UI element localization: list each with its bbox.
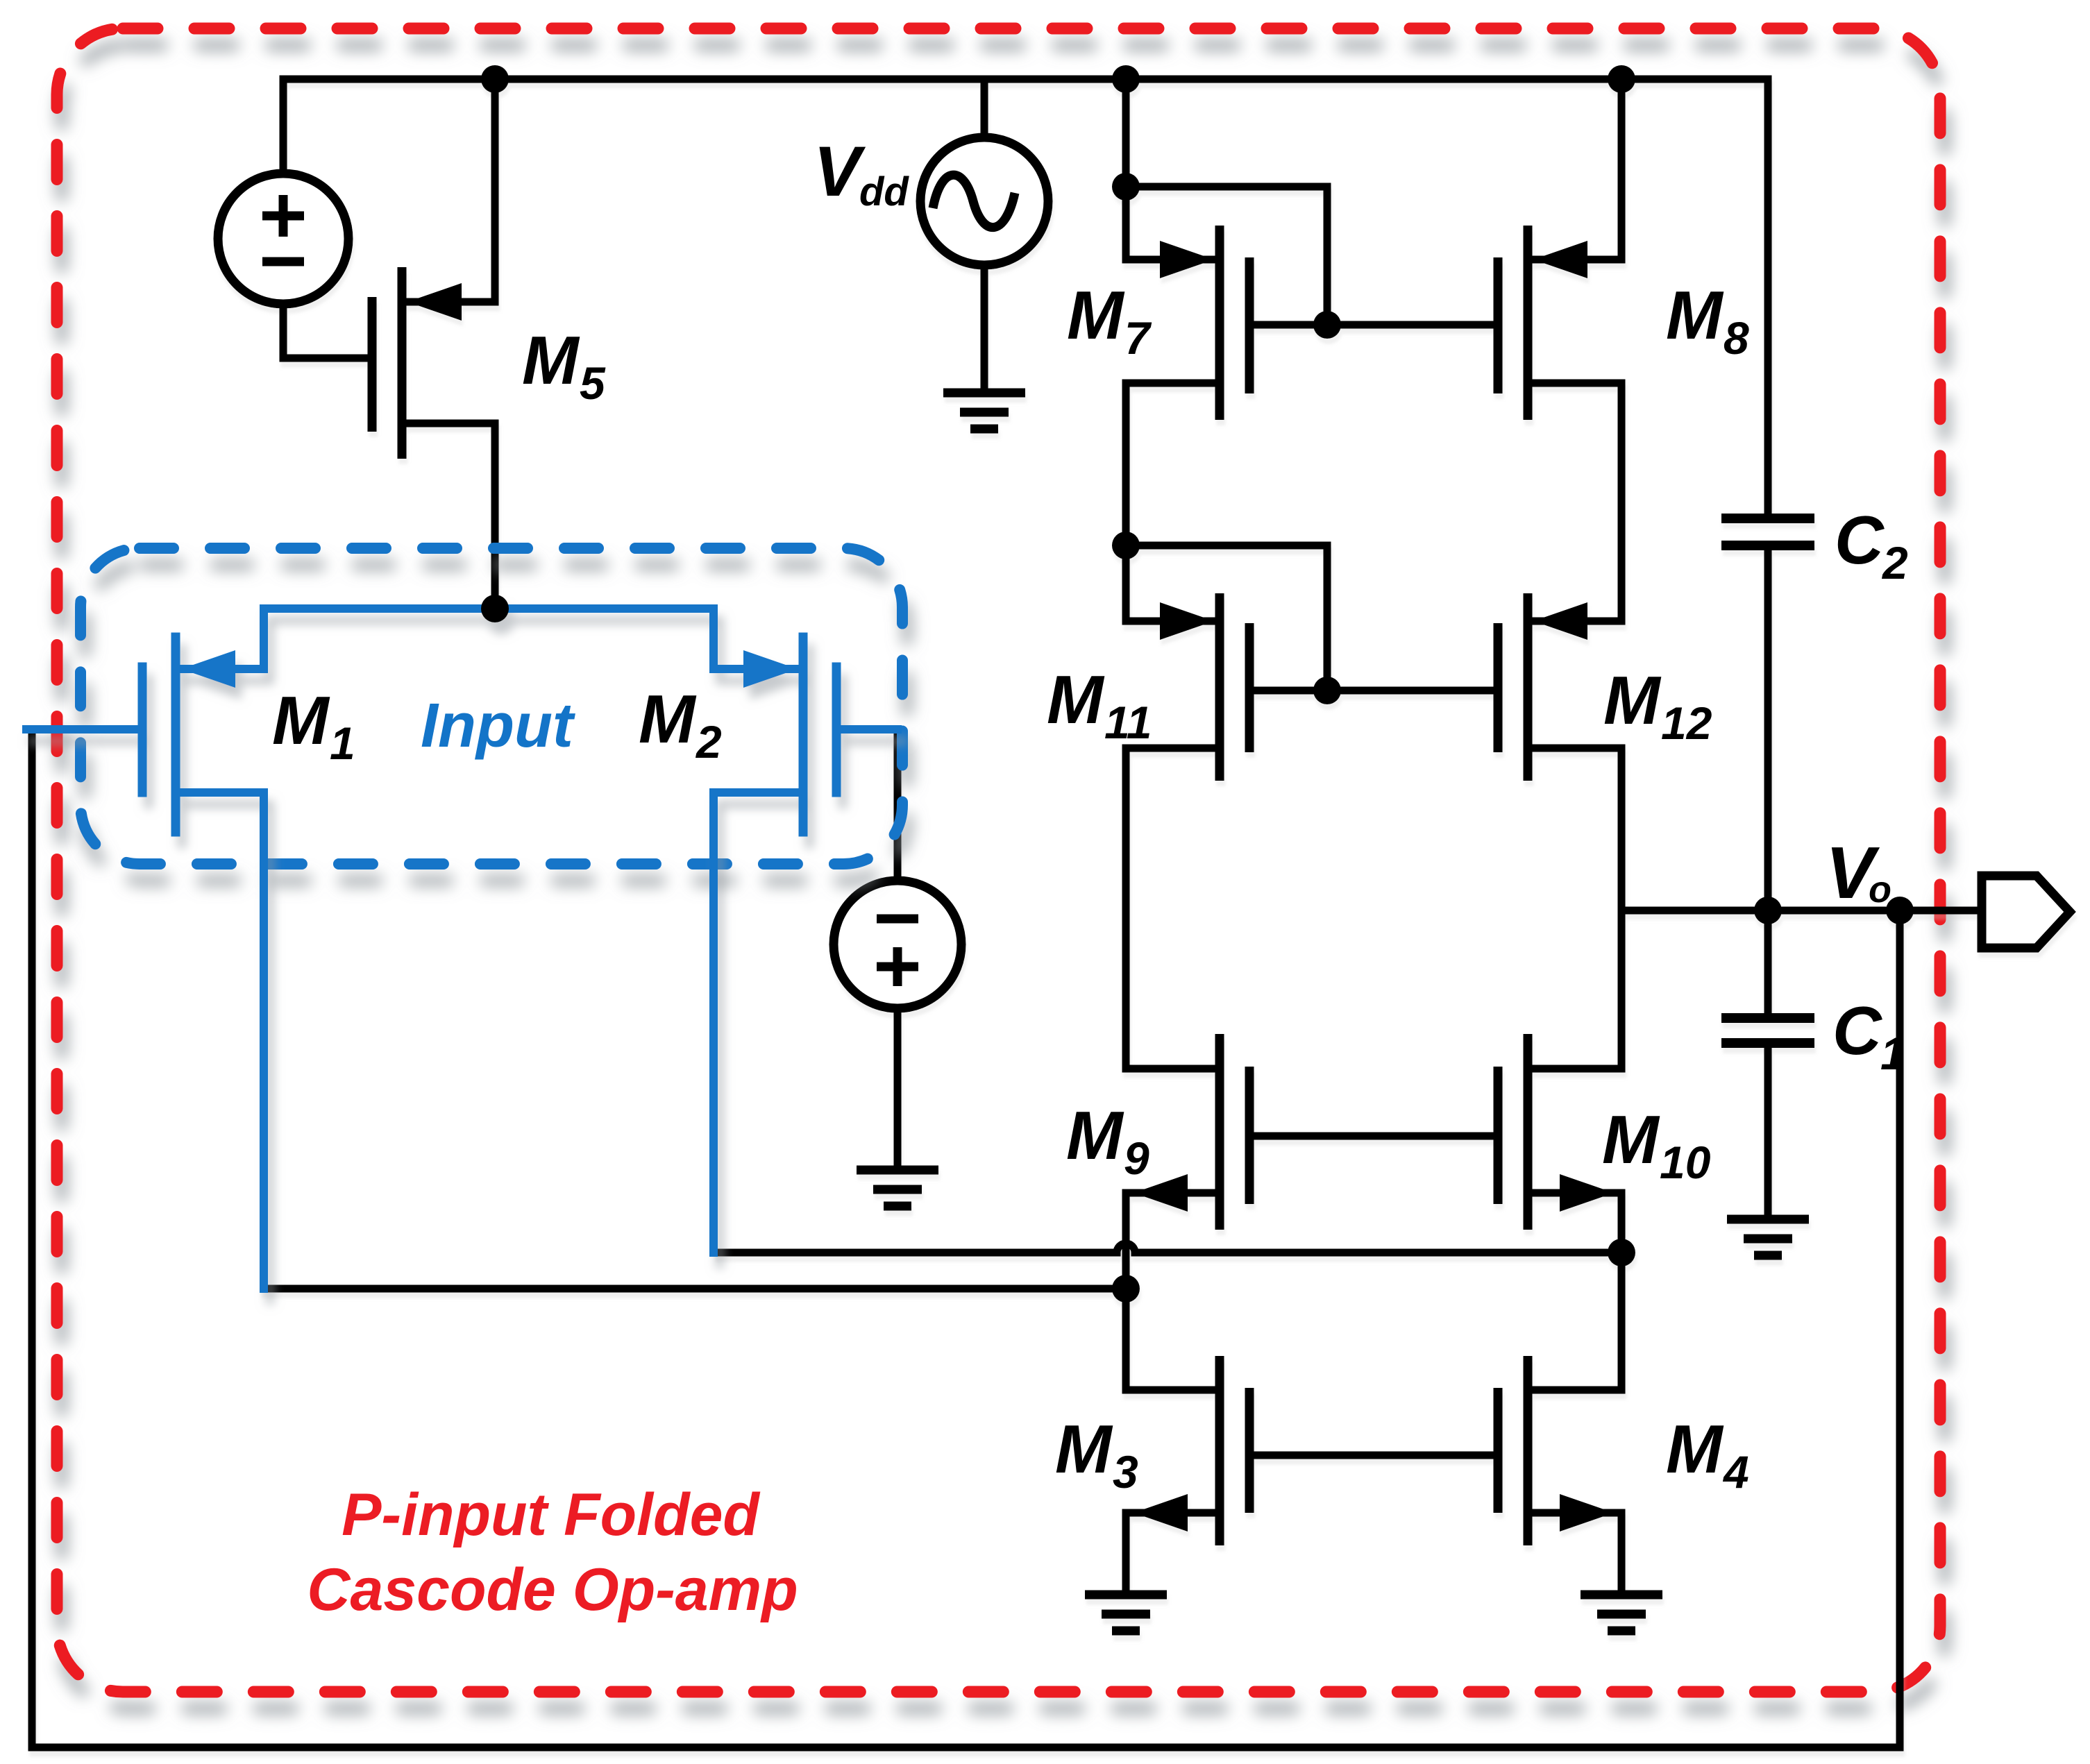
- output port arrow: [1982, 876, 2070, 948]
- wire M5 source to top rail: [491, 79, 499, 302]
- ground below Vb: [857, 1170, 938, 1206]
- wire output node Vo: [1621, 907, 1982, 915]
- wire M12 drain to M10 drain: [1618, 748, 1626, 1069]
- wire M8 drain to M12 source: [1618, 383, 1626, 621]
- capacitor C1: [1721, 1018, 1814, 1043]
- transistor M10: [1498, 1034, 1621, 1230]
- svg-text:2: 2: [695, 716, 722, 767]
- wire M10 source to node B: [1618, 1193, 1626, 1390]
- wire M3 drain lead: [1126, 1386, 1220, 1394]
- wire Vdd source to top rail: [981, 79, 988, 139]
- transistor M11: [1126, 593, 1498, 781]
- ground below M4: [1581, 1595, 1662, 1631]
- wire M8 source to top rail: [1618, 79, 1626, 260]
- node M11 gate-feed tap: [1112, 532, 1140, 559]
- svg-text:10: 10: [1660, 1137, 1711, 1188]
- wire M2 gate to Vb source: [894, 729, 902, 881]
- svg-text:12: 12: [1661, 697, 1712, 749]
- voltage source V bias (+/-): [218, 173, 348, 304]
- transistor M1 (blue): [26, 609, 264, 832]
- transistor M9: [1126, 1034, 1498, 1230]
- source Vdd (AC symbol): [920, 137, 1048, 265]
- node junction top rail / M7 bus: [1112, 65, 1140, 93]
- node B: M2 drain / M10 source / M4 drain: [1608, 1239, 1635, 1266]
- wire Vb source to ground: [894, 1008, 902, 1170]
- wire M7 drain to M11 source: [1122, 383, 1130, 621]
- wire M2 drain to node B (hop over left bus): [714, 1244, 1621, 1253]
- wire M4 source to ground: [1618, 1513, 1626, 1595]
- wire Vdd source to ground: [981, 265, 988, 393]
- svg-text:1: 1: [1880, 1028, 1906, 1079]
- wire bias source to M5 gate: [283, 304, 372, 358]
- wire C2 bottom to Vo node and C1 top: [1764, 550, 1772, 1013]
- svg-text:M: M: [1055, 1411, 1113, 1487]
- ground below C1: [1727, 1219, 1809, 1255]
- node M11/M12 gate junction: [1313, 677, 1341, 704]
- svg-text:4: 4: [1722, 1446, 1749, 1498]
- svg-text:M: M: [1602, 1101, 1660, 1178]
- svg-text:Cascode Op-amp: Cascode Op-amp: [307, 1557, 798, 1623]
- svg-text:M: M: [272, 682, 330, 758]
- svg-text:M: M: [1066, 1097, 1124, 1173]
- svg-text:M: M: [1666, 277, 1724, 353]
- node junction top rail / M8 bus: [1608, 65, 1635, 93]
- svg-text:M: M: [1067, 277, 1125, 353]
- wire M4 drain lead: [1528, 1386, 1621, 1394]
- node M7/M8 gate junction: [1313, 311, 1341, 339]
- wire C1 bottom to ground: [1764, 1048, 1772, 1219]
- node input pair / M5 drain: [481, 595, 509, 622]
- transistor M3: [1126, 1356, 1498, 1545]
- transistor M2 (blue): [714, 609, 897, 832]
- svg-text:8: 8: [1724, 312, 1749, 364]
- svg-text:Input: Input: [421, 691, 576, 761]
- node M7 gate-feed tap: [1112, 173, 1140, 201]
- ground below Vdd: [943, 393, 1025, 429]
- wire M1 drain to node A: [264, 1285, 1126, 1293]
- transistor M12: [1498, 593, 1621, 781]
- transistor M5: [372, 267, 495, 459]
- svg-text:3: 3: [1113, 1446, 1138, 1498]
- wire M11 drain to M9 drain: [1122, 748, 1130, 1069]
- wire M3 source to ground: [1122, 1513, 1130, 1595]
- svg-text:P-input Folded: P-input Folded: [342, 1482, 760, 1548]
- wire M1 drain down (blue): [260, 792, 268, 1289]
- wire M2 drain down (blue): [709, 792, 718, 1253]
- svg-text:9: 9: [1124, 1133, 1149, 1184]
- svg-text:M: M: [1603, 662, 1662, 738]
- transistor M8: [1498, 226, 1621, 420]
- svg-text:C: C: [1835, 502, 1885, 578]
- input pair box (blue dashed): [81, 548, 902, 864]
- svg-text:M: M: [1666, 1411, 1724, 1487]
- transistor M7: [1126, 226, 1498, 420]
- transistor M4: [1498, 1356, 1621, 1545]
- wire M11/M12 gate feed: [1126, 545, 1327, 690]
- svg-text:dd: dd: [859, 169, 909, 214]
- wire bias source top lead: [280, 79, 287, 175]
- wire M8-left bus top: [1122, 79, 1130, 260]
- voltage source Vb (-/+): [834, 881, 961, 1008]
- svg-text:M: M: [1047, 661, 1105, 738]
- node Vo / feedback junction: [1886, 897, 1914, 924]
- svg-text:o: o: [1869, 869, 1891, 910]
- capacitor C2: [1721, 518, 1814, 545]
- node A: M1 drain / M9 source / M3 drain: [1112, 1275, 1140, 1303]
- node Vo / C1-C2 junction: [1754, 897, 1782, 924]
- svg-text:2: 2: [1881, 537, 1908, 588]
- svg-text:7: 7: [1124, 312, 1152, 364]
- svg-text:M: M: [522, 322, 580, 398]
- wire M7/M8 gate feed: [1126, 187, 1327, 325]
- svg-text:C: C: [1832, 992, 1882, 1069]
- wire input pair common source (blue): [264, 604, 714, 613]
- wire top supply rail: [283, 79, 1768, 514]
- ground below M3: [1085, 1595, 1167, 1631]
- wire feedback loop M1 gate - bottom - Vo: [32, 729, 1900, 1747]
- svg-text:11: 11: [1104, 697, 1152, 748]
- svg-text:M: M: [639, 681, 697, 757]
- wire M9 source down to node A: [1122, 1193, 1130, 1390]
- svg-text:V: V: [814, 132, 866, 211]
- svg-text:1: 1: [330, 718, 355, 769]
- node junction top rail / M5 source: [481, 65, 509, 93]
- svg-text:5: 5: [580, 357, 606, 409]
- wire M5 drain to input pair node: [491, 423, 499, 609]
